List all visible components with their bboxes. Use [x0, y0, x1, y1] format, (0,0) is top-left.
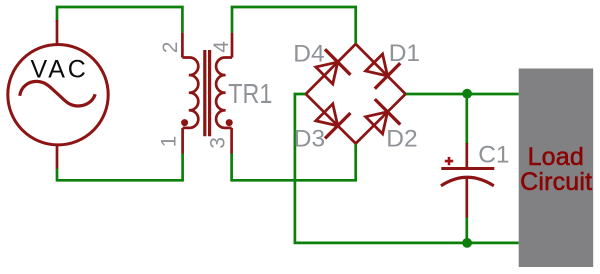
VAC bottom lead: [56, 146, 59, 169]
transformer TR1 polarity dot pin 1: [181, 119, 188, 126]
capacitor C1 bottom lead (red part): [465, 178, 468, 218]
wire capacitor bottom lead (green part): [465, 217, 468, 243]
wire bridge plus node to load: [405, 93, 519, 96]
wire transformer pin 3 to bridge bottom node: [232, 143, 356, 180]
bridge diamond side T-L: [306, 44, 356, 94]
VAC source V1 circle: [8, 44, 108, 144]
svg-text:2: 2: [159, 42, 182, 54]
svg-text:1: 1: [158, 136, 181, 148]
load block: [519, 69, 594, 268]
svg-text:D1: D1: [389, 40, 420, 67]
svg-text:D4: D4: [293, 41, 324, 68]
svg-text:VAC: VAC: [31, 56, 89, 84]
transformer TR1 pin 3 lead: [230, 128, 233, 154]
transformer TR1 secondary winding: [216, 57, 232, 127]
svg-text:TR1: TR1: [228, 78, 272, 109]
diode D3: [312, 100, 351, 139]
VAC sine wave: [20, 81, 96, 106]
transformer TR1 primary winding: [182, 57, 198, 127]
diode D1: [361, 50, 400, 89]
svg-text:C1: C1: [478, 141, 509, 168]
capacitor C1 top plate: [441, 167, 494, 170]
svg-text:4: 4: [210, 41, 233, 53]
capacitor C1 plus sign: [445, 157, 453, 165]
transformer TR1 pin 2 lead: [181, 33, 184, 58]
VAC top lead: [56, 20, 59, 44]
transformer TR1 pin 1 lead: [181, 128, 184, 154]
wire capacitor top lead (green part): [465, 94, 468, 144]
junction dot bottom: [462, 238, 472, 248]
capacitor C1 bottom plate (arc): [441, 177, 494, 186]
svg-text:D2: D2: [386, 125, 417, 152]
transformer TR1 core bar right: [208, 50, 211, 136]
bridge diamond side B-R: [356, 94, 406, 144]
transformer TR1 polarity dot pin 3: [226, 119, 233, 126]
transformer TR1 pin 4 lead: [231, 33, 234, 58]
capacitor C1 top lead (red part): [465, 143, 468, 167]
svg-text:Load: Load: [528, 143, 584, 171]
diode D4: [312, 49, 351, 88]
svg-text:Circuit: Circuit: [520, 168, 592, 196]
svg-text:3: 3: [206, 137, 229, 149]
bridge diamond side L-B: [306, 94, 356, 144]
transformer TR1 core bar left: [203, 50, 206, 136]
bridge diamond side T-R: [356, 44, 406, 94]
diode D2: [361, 99, 400, 138]
wire bridge minus node to bottom rail into load: [295, 94, 519, 243]
wire transformer pin 4 to bridge top node: [232, 7, 356, 45]
wire VAC bottom to transformer pin 1: [57, 153, 183, 180]
svg-text:D3: D3: [294, 125, 325, 152]
wire VAC top to transformer pin 2: [57, 7, 182, 33]
junction dot top: [462, 89, 472, 99]
